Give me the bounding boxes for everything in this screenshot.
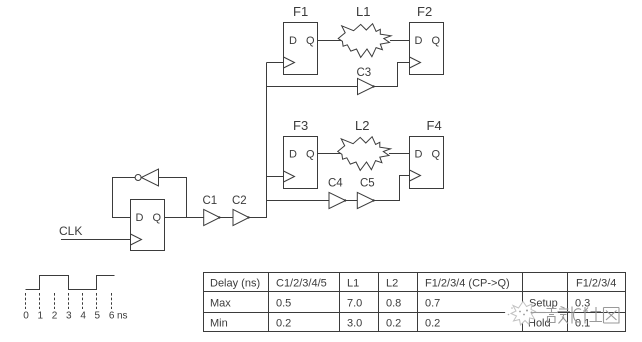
svg-text:C4: C4 (328, 178, 343, 190)
wire C5 output to F4 clock (374, 176, 410, 201)
wire L2 to F4.D (389, 153, 410, 155)
svg-text:1: 1 (38, 311, 44, 322)
svg-text:Q: Q (432, 149, 441, 161)
svg-text:Q: Q (153, 212, 162, 224)
svg-text:F3: F3 (293, 118, 308, 133)
flip-flop F2 (410, 4, 444, 75)
delay table (204, 273, 626, 332)
wire trunk branch to C4 (267, 200, 330, 202)
buffer C1 (203, 195, 221, 226)
buffer C5 (357, 178, 374, 209)
svg-text:F2: F2 (417, 4, 432, 19)
svg-text:Setup: Setup (529, 298, 558, 310)
svg-text:3.0: 3.0 (347, 318, 362, 330)
flip-flop F1 (284, 4, 318, 75)
net L1 (interconnect cloud) (338, 4, 391, 57)
svg-text:6: 6 (109, 311, 115, 322)
svg-text:F4: F4 (427, 118, 442, 133)
svg-text:0.2: 0.2 (386, 318, 401, 330)
svg-text:D: D (415, 35, 423, 47)
wire F3.Q to L2 (318, 153, 342, 155)
wire trunk branch to F1 clock (267, 62, 284, 64)
svg-text:L1: L1 (347, 278, 359, 290)
wire C1 to C2 (220, 217, 233, 219)
svg-text:7.0: 7.0 (347, 298, 362, 310)
svg-text:0.2: 0.2 (425, 318, 440, 330)
svg-text:0: 0 (23, 311, 29, 322)
wire trunk branch to C3 (267, 86, 358, 88)
svg-text:5: 5 (95, 311, 101, 322)
clock generator flip-flop (131, 200, 165, 251)
svg-text:F1/2/3/4 (CP->Q): F1/2/3/4 (CP->Q) (425, 278, 510, 290)
svg-text:C1: C1 (203, 195, 218, 207)
svg-text:D: D (415, 149, 423, 161)
svg-text:F1/2/3/4: F1/2/3/4 (576, 278, 616, 290)
svg-text:Q: Q (432, 35, 441, 47)
flip-flop F4 (410, 118, 444, 189)
svg-text:3: 3 (66, 311, 72, 322)
flip-flop F3 (284, 118, 318, 189)
svg-text:C2: C2 (232, 195, 247, 207)
svg-text:Delay (ns): Delay (ns) (210, 278, 260, 290)
svg-text:L2: L2 (355, 118, 369, 133)
wire C3 output to F2 clock (374, 63, 410, 87)
svg-text:D: D (289, 35, 297, 47)
watermark text (533, 307, 620, 324)
svg-text:CLK: CLK (59, 224, 82, 238)
svg-text:Min: Min (210, 318, 228, 330)
svg-text:ns: ns (117, 311, 128, 322)
clock waveform (23, 276, 127, 322)
wire Q to C1 (165, 217, 204, 219)
svg-text:0.2: 0.2 (276, 318, 291, 330)
svg-text:Q: Q (306, 35, 315, 47)
svg-text:2: 2 (52, 311, 58, 322)
svg-text:4: 4 (80, 311, 86, 322)
buffer C3 (357, 67, 375, 95)
svg-text:C5: C5 (360, 178, 375, 190)
svg-text:0.7: 0.7 (425, 298, 440, 310)
buffer C2 (232, 195, 250, 226)
svg-text:C1/2/3/4/5: C1/2/3/4/5 (276, 278, 327, 290)
buffer C4 (328, 178, 346, 209)
svg-text:L2: L2 (386, 278, 398, 290)
wire inverter output to D (113, 178, 136, 218)
wire feedback loop (159, 178, 187, 218)
wire C4 output to C5 input (346, 200, 358, 202)
svg-text:F1: F1 (293, 4, 308, 19)
svg-text:L1: L1 (356, 4, 370, 19)
svg-text:0.1: 0.1 (575, 318, 590, 330)
wire L1 to F2.D (390, 40, 410, 42)
svg-text:C3: C3 (357, 67, 372, 79)
watermark logo (505, 302, 536, 326)
svg-text:0.5: 0.5 (276, 298, 291, 310)
wire F1.Q to L1 (318, 40, 342, 42)
wire CLK input (61, 239, 131, 241)
inverter (feedback) (135, 169, 158, 186)
net L2 (interconnect cloud) (338, 118, 391, 170)
svg-text:D: D (289, 149, 297, 161)
wire C2 to clock trunk (249, 63, 267, 218)
wire trunk branch to F3 clock (267, 176, 284, 178)
svg-text:Max: Max (210, 298, 231, 310)
svg-text:D: D (136, 212, 144, 224)
svg-text:0.8: 0.8 (386, 298, 401, 310)
svg-text:Q: Q (306, 149, 315, 161)
